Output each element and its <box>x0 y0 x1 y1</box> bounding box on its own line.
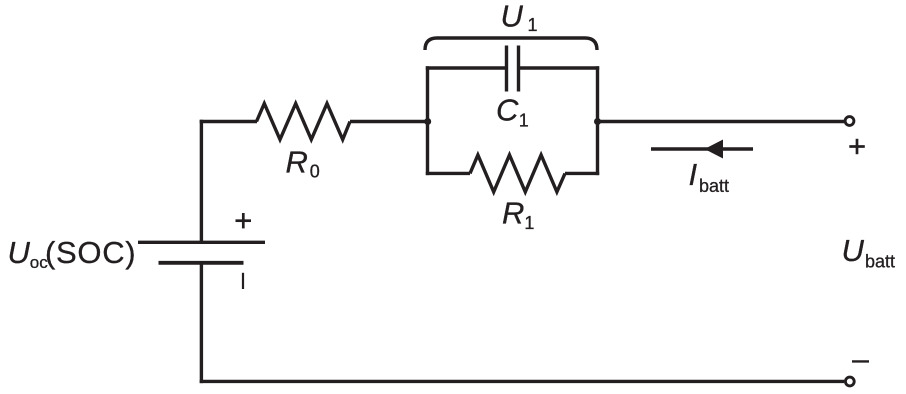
current arrow Ibatt head <box>705 140 724 159</box>
wire bottom branch right <box>565 172 599 175</box>
battery top plate <box>138 241 265 244</box>
wire left box vertical <box>426 66 429 175</box>
svg-text:U: U <box>8 235 31 270</box>
current arrow Ibatt line <box>651 147 753 151</box>
svg-text:0: 0 <box>310 162 320 182</box>
wire left vertical upper <box>200 120 203 242</box>
resistor R0 <box>257 104 351 140</box>
svg-text:R: R <box>286 145 308 180</box>
plus sign at top terminal <box>849 139 865 154</box>
minus tick at battery <box>242 273 244 289</box>
terminal bottom circle <box>845 377 854 386</box>
svg-text:U: U <box>501 0 524 34</box>
svg-text:1: 1 <box>524 213 534 233</box>
wire bottom branch left <box>426 172 470 175</box>
wire bottom horizontal <box>200 380 844 383</box>
svg-text:I: I <box>689 157 698 192</box>
terminal top circle <box>845 117 854 126</box>
wire right box vertical <box>596 66 599 175</box>
svg-text:batt: batt <box>699 176 729 196</box>
svg-text:batt: batt <box>865 252 895 272</box>
svg-text:R: R <box>502 196 524 231</box>
wire top branch left <box>426 66 507 69</box>
svg-text:(SOC): (SOC) <box>45 235 136 270</box>
wire top branch right <box>519 66 600 69</box>
resistor R1 <box>470 155 565 192</box>
battery bottom plate <box>159 261 244 265</box>
svg-text:U: U <box>842 233 865 268</box>
minus sign at bottom terminal <box>852 360 869 362</box>
plus sign at battery <box>236 213 252 228</box>
svg-text:1: 1 <box>519 111 529 131</box>
wire left vertical lower <box>200 263 203 383</box>
svg-text:C: C <box>496 92 519 127</box>
wire R0 to node <box>350 120 429 123</box>
node left junction <box>424 118 431 125</box>
node right junction <box>594 118 601 125</box>
wire top-left horizontal <box>200 120 257 123</box>
bracket U1 <box>425 38 597 50</box>
svg-text:1: 1 <box>528 15 538 35</box>
capacitor C1 <box>505 46 508 92</box>
wire main right <box>598 120 845 123</box>
